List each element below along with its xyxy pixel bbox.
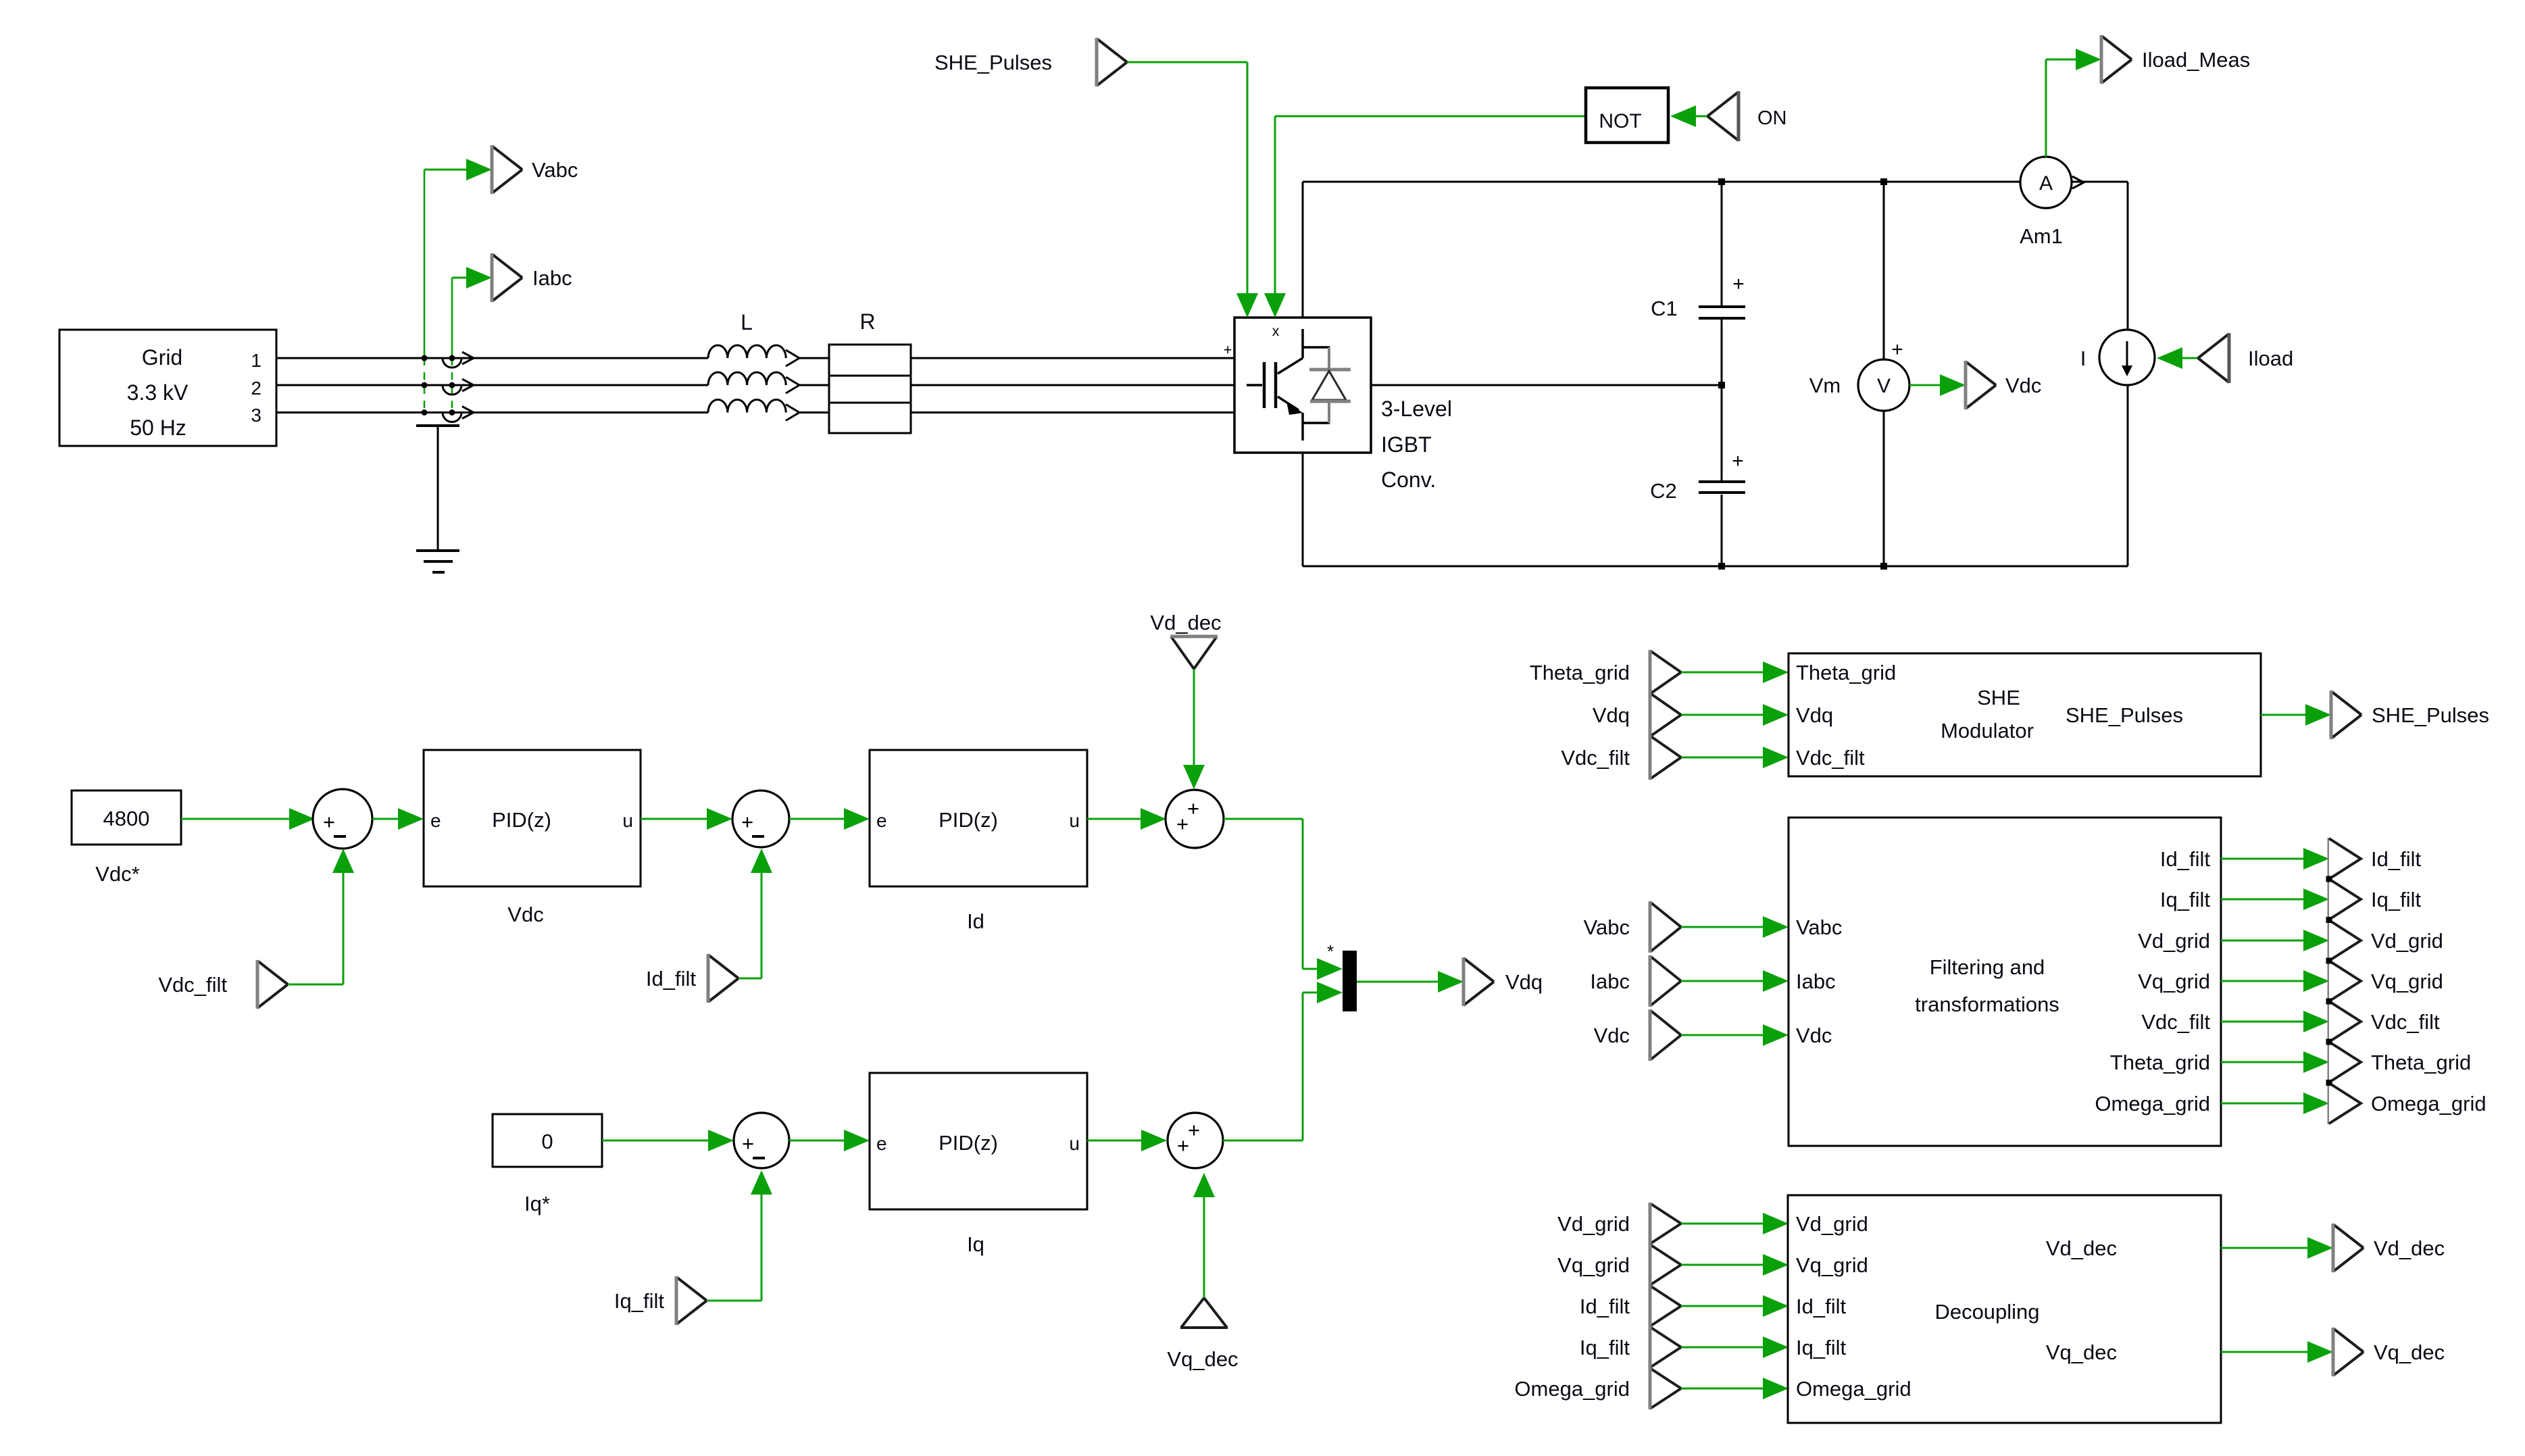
svg-text:Grid: Grid (142, 345, 182, 370)
svg-text:+: + (1732, 450, 1744, 472)
svg-text:transformations: transformations (1915, 993, 2059, 1016)
wire dc+ converter to rail (1302, 182, 1304, 318)
constant block 4800 (72, 790, 181, 886)
svg-text:Vd_grid: Vd_grid (1557, 1212, 1630, 1236)
svg-text:Vd_dec: Vd_dec (2374, 1236, 2445, 1260)
junction voltage-tap dot phase 2 (422, 382, 428, 388)
wire Vabc to filtering (1681, 916, 1789, 938)
wire sum to PID Iq (789, 1130, 870, 1151)
svg-text:Iq_filt: Iq_filt (2371, 888, 2421, 911)
wire Vd_dec output (2221, 1237, 2333, 1259)
label goto Vq_grid (2371, 970, 2443, 993)
capacitor C2 (1650, 385, 1745, 566)
svg-text:Id: Id (967, 909, 984, 933)
svg-text:C1: C1 (1651, 297, 1678, 320)
ammeter out chevron (2072, 176, 2084, 189)
svg-text:Vdc_filt: Vdc_filt (2371, 1010, 2440, 1034)
svg-text:0: 0 (541, 1130, 553, 1153)
svg-text:Id_filt: Id_filt (646, 967, 696, 990)
wire Vm to Vdc tag (1909, 374, 1966, 396)
svg-text:+: + (1176, 812, 1189, 836)
junction dot Vm bottom (1880, 563, 1887, 570)
wire Iabc to filtering (1681, 970, 1789, 992)
goto tag Vd_dec (2333, 1224, 2445, 1272)
svg-text:+: + (1732, 273, 1745, 295)
goto tag SHE_Pulses (2331, 691, 2489, 739)
from tag Vq_dec (1167, 1298, 1238, 1371)
from tag Iabc (filtering) (1590, 955, 1681, 1007)
converter phase + mark (1224, 341, 1232, 358)
wire Theta_grid to modulator (1681, 661, 1789, 683)
svg-text:Id_filt: Id_filt (2160, 847, 2210, 871)
wire to Iabc tag (452, 267, 492, 288)
block 3-Level IGBT Conv. (1234, 318, 1371, 453)
label goto Iq_filt (2371, 888, 2421, 911)
svg-text:Vq_grid: Vq_grid (2138, 970, 2210, 993)
svg-text:Vabc: Vabc (1584, 915, 1630, 939)
svg-text:NOT: NOT (1599, 110, 1641, 132)
label 3-Level IGBT Conv. (1381, 397, 1452, 492)
svg-text:Omega_grid: Omega_grid (1514, 1377, 1630, 1401)
svg-text:Vdq: Vdq (1796, 703, 1833, 727)
svg-text:Vd_grid: Vd_grid (2371, 929, 2443, 953)
junction voltage-tap dot phase 3 (422, 409, 428, 416)
svg-text:Vq_dec: Vq_dec (1167, 1347, 1238, 1371)
block NOT (1586, 88, 1668, 143)
svg-text:I: I (2080, 347, 2086, 370)
block SHE Modulator (1789, 653, 2261, 776)
svg-text:+: + (1177, 1134, 1189, 1157)
wire Omega_grid output (2221, 1093, 2329, 1114)
wire Vdc_filt output (2221, 1011, 2329, 1032)
wire ammeter to Iload_Meas tag (2046, 49, 2101, 157)
svg-text:Iabc: Iabc (1590, 970, 1630, 993)
svg-text:PID(z): PID(z) (492, 808, 551, 832)
from tag Vabc (filtering) (1584, 901, 1681, 953)
svg-text:Conv.: Conv. (1381, 468, 1436, 492)
label goto Id_filt (2371, 847, 2421, 871)
svg-text:Theta_grid: Theta_grid (1530, 661, 1630, 684)
junction dot midpoint (1718, 382, 1725, 388)
svg-text:Am1: Am1 (2020, 224, 2063, 248)
goto tag Iload_Meas (2101, 35, 2250, 84)
svg-text:A: A (2039, 172, 2053, 195)
svg-text:Vdc: Vdc (2005, 374, 2041, 397)
svg-text:+: + (1188, 1118, 1200, 1142)
svg-text:+: + (323, 810, 335, 834)
wire PID Vdc to sum Id (641, 808, 732, 830)
from tag Theta_grid (modulator) (1530, 650, 1681, 695)
svg-text:Vq_dec: Vq_dec (2374, 1340, 2445, 1364)
svg-text:Id_filt: Id_filt (1796, 1295, 1846, 1318)
svg-text:PID(z): PID(z) (939, 1131, 998, 1155)
svg-text:Iq_filt: Iq_filt (2160, 888, 2210, 911)
svg-text:+: + (1187, 797, 1199, 820)
svg-text:Vdc: Vdc (1796, 1024, 1832, 1047)
from tag Vdc_filt (modulator) (1561, 735, 1681, 780)
ground (416, 551, 459, 572)
wire dc- bottom rail (1303, 566, 2128, 568)
svg-text:Decoupling: Decoupling (1934, 1300, 2039, 1324)
svg-text:+: + (1891, 338, 1903, 361)
wire Iq_filt output (2221, 888, 2329, 910)
svg-text:Theta_grid: Theta_grid (2371, 1051, 2471, 1074)
svg-text:Vd_dec: Vd_dec (2046, 1236, 2117, 1260)
svg-text:Vd_grid: Vd_grid (1796, 1212, 1868, 1236)
mux Vdq (1327, 941, 1357, 1011)
ammeter Am1 (2020, 157, 2072, 248)
svg-text:x: x (1272, 324, 1280, 339)
from tag Iq_filt (614, 1276, 707, 1325)
svg-text:R: R (859, 309, 875, 334)
wire Vd_dec to sum (1183, 669, 1205, 789)
svg-text:C2: C2 (1650, 479, 1677, 503)
svg-text:u: u (1069, 810, 1080, 831)
label goto Theta_grid (2371, 1051, 2471, 1074)
wire Vq_grid to decoupling (1681, 1254, 1789, 1276)
wire Vd_grid to decoupling (1681, 1213, 1789, 1234)
svg-text:Id_filt: Id_filt (2371, 847, 2421, 871)
svg-text:Vdc_filt: Vdc_filt (1561, 746, 1630, 770)
wire converter midpoint to capacitors (1371, 384, 1722, 386)
from tag Vd_dec (1150, 611, 1221, 669)
svg-text:3: 3 (251, 405, 261, 426)
wire sum Vd to mux (1224, 819, 1343, 980)
label goto Omega_grid (2371, 1092, 2486, 1115)
wire Theta_grid output (2221, 1051, 2329, 1073)
wire PID Iq to sum (1087, 1130, 1167, 1151)
svg-text:Vd_grid: Vd_grid (2138, 929, 2210, 953)
svg-text:1: 1 (251, 350, 261, 371)
svg-text:Vdc_filt: Vdc_filt (158, 973, 227, 997)
voltmeter Vm (1809, 338, 1909, 411)
from tag Omega_grid (decoupling) (1514, 1367, 1681, 1409)
capacitor C1 (1651, 182, 1745, 385)
svg-text:Omega_grid: Omega_grid (2371, 1092, 2486, 1115)
svg-text:Vdc*: Vdc* (95, 862, 139, 886)
wire grid phase 2 to inductor (276, 384, 708, 386)
goto tag Vdc (1966, 361, 2041, 409)
wire sum Vq to mux (1223, 982, 1343, 1140)
svg-text:3-Level: 3-Level (1381, 397, 1452, 421)
svg-text:+: + (742, 1132, 754, 1155)
current sensor phase 2 (443, 379, 474, 395)
wire Iq_filt to sum (707, 1170, 772, 1301)
wire Id_filt to sum (739, 849, 772, 978)
svg-text:4800: 4800 (103, 807, 150, 830)
wire current source to bottom rail (2127, 385, 2129, 566)
svg-text:Iq*: Iq* (524, 1192, 550, 1215)
svg-text:Vdc_filt: Vdc_filt (1796, 746, 1865, 770)
sum block Vd (1166, 790, 1224, 848)
from tag Vdc_filt (158, 960, 288, 1009)
svg-text:Theta_grid: Theta_grid (2110, 1051, 2210, 1074)
svg-text:Iabc: Iabc (1796, 970, 1836, 993)
svg-text:Vdc_filt: Vdc_filt (2141, 1010, 2210, 1034)
junction voltage-tap dot phase 1 (422, 355, 428, 361)
sum block Id error (732, 790, 789, 847)
svg-text:L: L (741, 310, 753, 334)
label goto Vd_grid (2371, 929, 2443, 953)
svg-text:50 Hz: 50 Hz (130, 416, 186, 440)
wire 0 to sum (602, 1130, 734, 1151)
resistor R three-phase (829, 309, 911, 433)
svg-text:Vdq: Vdq (1593, 703, 1630, 727)
wire R to converter phase 2 (911, 384, 1234, 386)
wire PID Id to sum (1087, 808, 1166, 830)
svg-text:+: + (1224, 341, 1232, 358)
antiparallel diode (1309, 347, 1351, 423)
wire Iq_filt to decoupling (1681, 1336, 1789, 1358)
svg-text:u: u (1069, 1133, 1080, 1154)
svg-text:Modulator: Modulator (1941, 719, 2034, 743)
svg-text:Id_filt: Id_filt (1580, 1295, 1630, 1318)
wire R to converter phase 1 (911, 357, 1234, 359)
wire Vdq to modulator (1681, 704, 1789, 726)
svg-text:Iq_filt: Iq_filt (1796, 1336, 1846, 1359)
from tag ON (1707, 91, 1787, 141)
from tag Vdc (filtering) (1594, 1009, 1681, 1061)
svg-text:SHE: SHE (1977, 686, 2020, 709)
wire dc+ top rail (1303, 181, 2021, 183)
wire ON to NOT (1670, 105, 1707, 127)
block PID(z) Vdc (424, 750, 641, 926)
svg-text:e: e (876, 810, 887, 831)
svg-text:Vabc: Vabc (532, 158, 578, 182)
svg-text:e: e (430, 810, 441, 831)
sum block Vdc error (313, 789, 372, 849)
svg-text:SHE_Pulses: SHE_Pulses (2372, 703, 2489, 727)
sum block Iq error (734, 1113, 789, 1168)
wire Vdc to filtering (1681, 1024, 1789, 1046)
from tag SHE_Pulses (934, 38, 1127, 86)
wire R to converter phase 3 (911, 411, 1234, 413)
block Decoupling (1788, 1195, 2221, 1423)
svg-text:e: e (876, 1133, 887, 1154)
from tag Vd_grid (decoupling) (1557, 1203, 1681, 1245)
wire to Vabc tag (424, 159, 492, 180)
svg-text:Iq_filt: Iq_filt (614, 1289, 664, 1313)
wire Vq_grid output (2221, 970, 2329, 992)
wire Vdc_filt to modulator (1681, 747, 1789, 768)
svg-text:Vdc: Vdc (507, 903, 543, 926)
wire rail to right corner (2072, 182, 2128, 330)
wire grid phase 3 to inductor (276, 411, 708, 413)
svg-text:3.3 kV: 3.3 kV (127, 380, 189, 405)
svg-text:Vq_dec: Vq_dec (2046, 1340, 2117, 1364)
wire grid phase 1 to inductor (276, 357, 708, 359)
label goto Vdc_filt (2371, 1010, 2440, 1034)
block Filtering and transformations (1789, 818, 2221, 1146)
wire Id_filt output (2221, 848, 2329, 870)
svg-text:SHE_Pulses: SHE_Pulses (2066, 703, 2183, 727)
wire mux to Vdq tag (1357, 971, 1464, 993)
svg-text:ON: ON (1757, 107, 1787, 129)
from tag Id_filt (decoupling) (1580, 1285, 1681, 1327)
current sensor phase 3 (443, 407, 474, 422)
node voltage tap dashed line (to Vabc) (424, 170, 426, 413)
current source I (2080, 330, 2155, 385)
svg-text:Theta_grid: Theta_grid (1796, 661, 1896, 684)
wire Vm bottom (1883, 411, 1885, 566)
sum block Vq (1168, 1113, 1223, 1168)
svg-text:V: V (1877, 375, 1891, 397)
from tag Vdq (modulator) (1593, 693, 1681, 737)
block PID(z) Id (870, 750, 1087, 933)
wire Iload to current source (2157, 347, 2198, 369)
goto tag Vdq (1464, 957, 1543, 1006)
wire NOT to converter gate (1264, 116, 1586, 318)
goto tag Vq_dec (2333, 1328, 2445, 1376)
wire neutral to ground (437, 426, 439, 551)
svg-text:Vd_dec: Vd_dec (1150, 611, 1221, 634)
wire sum to PID Id (789, 808, 870, 830)
svg-text:IGBT: IGBT (1381, 432, 1432, 457)
svg-text:*: * (1327, 941, 1334, 961)
wire Id_filt to decoupling (1681, 1295, 1789, 1317)
wire Vq_dec output (2221, 1341, 2333, 1363)
svg-text:Vdq: Vdq (1505, 970, 1543, 994)
wire 4800 to sum (181, 808, 315, 830)
svg-text:Omega_grid: Omega_grid (1796, 1377, 1911, 1401)
from tag Iload (2198, 333, 2293, 383)
svg-text:Iq: Iq (967, 1232, 984, 1256)
from tag Iq_filt (decoupling) (1580, 1326, 1681, 1368)
goto tag Iabc (492, 253, 572, 302)
svg-text:Filtering and: Filtering and (1930, 955, 2045, 979)
svg-text:Iload_Meas: Iload_Meas (2142, 48, 2250, 72)
wire SHE_Pulses to converter gate (1127, 62, 1258, 318)
svg-text:PID(z): PID(z) (939, 808, 998, 832)
svg-text:SHE_Pulses: SHE_Pulses (934, 51, 1052, 74)
svg-text:Vq_grid: Vq_grid (1796, 1253, 1868, 1277)
svg-text:u: u (622, 810, 633, 831)
wire sum to PID Vdc (372, 808, 424, 830)
wire neutral bar (416, 424, 459, 427)
node current tap dashed line (to Iabc) (451, 278, 453, 413)
junction dot C2 bottom (1718, 563, 1725, 570)
wire Vdc_filt to sum (289, 849, 354, 984)
goto tag stack filtering outputs (2326, 838, 2361, 1124)
current sensor phase 1 (443, 352, 474, 368)
junction dot Vm top (1880, 178, 1887, 185)
svg-text:+: + (741, 810, 753, 834)
svg-text:Iabc: Iabc (532, 266, 572, 290)
svg-text:Vdc: Vdc (1594, 1024, 1630, 1047)
wire Vd_grid output (2221, 930, 2329, 951)
igbt symbol (1247, 329, 1330, 441)
block Grid 3.3 kV 50 Hz three-phase source (59, 330, 276, 446)
converter gate port mark x (1272, 324, 1280, 339)
svg-text:2: 2 (251, 378, 261, 399)
svg-text:Vabc: Vabc (1796, 915, 1842, 939)
wire Omega_grid to decoupling (1681, 1378, 1789, 1399)
svg-text:Vq_grid: Vq_grid (2371, 970, 2443, 993)
from tag Vq_grid (decoupling) (1557, 1244, 1681, 1286)
svg-text:Omega_grid: Omega_grid (2095, 1092, 2210, 1115)
inductor L three-phase (708, 310, 829, 421)
goto tag Vabc (492, 145, 578, 194)
wire Vm top (1883, 182, 1885, 359)
svg-text:Iq_filt: Iq_filt (1580, 1336, 1630, 1359)
wire modulator to SHE_Pulses tag (2261, 704, 2331, 726)
junction dot C1 top (1718, 178, 1725, 185)
constant block 0 (493, 1114, 602, 1215)
block PID(z) Iq (870, 1073, 1087, 1256)
from tag Id_filt (646, 954, 739, 1003)
wire dc- converter to rail (1302, 453, 1304, 566)
wire Vq_dec to sum (1193, 1173, 1215, 1298)
svg-text:Iload: Iload (2248, 347, 2293, 370)
svg-text:Vq_grid: Vq_grid (1557, 1253, 1630, 1277)
svg-text:Vm: Vm (1809, 374, 1841, 397)
